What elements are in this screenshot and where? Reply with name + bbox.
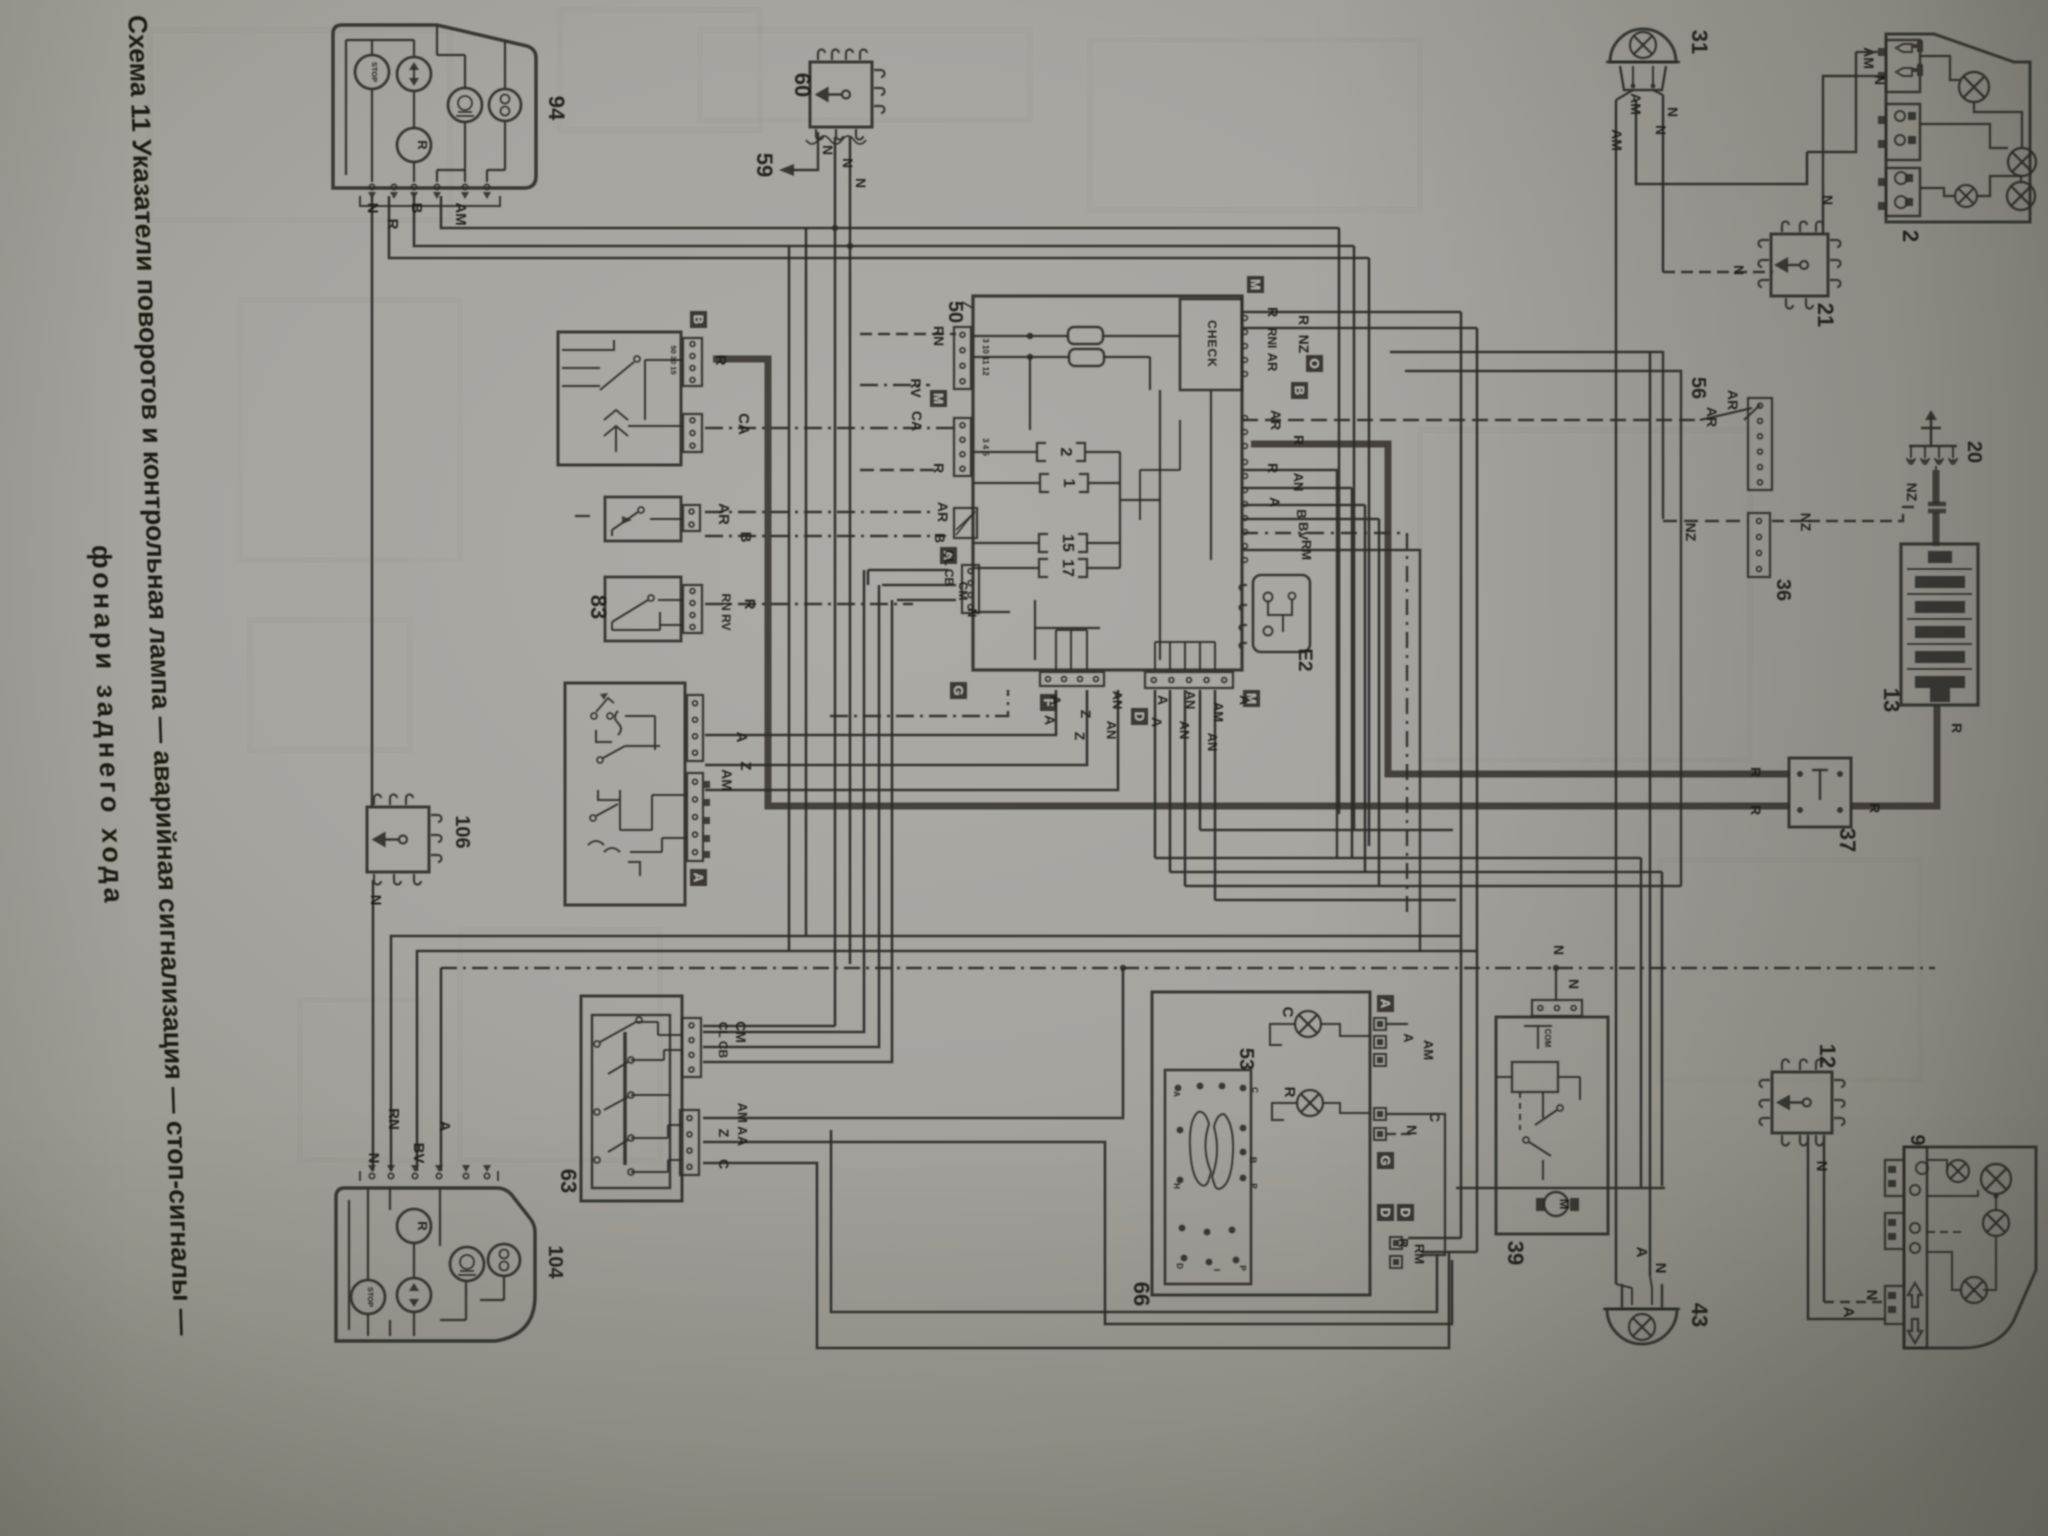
svg-text:C: C [1279, 1007, 1296, 1018]
svg-text:20: 20 [1963, 441, 1985, 463]
svg-text:15: 15 [1059, 534, 1076, 552]
svg-text:59: 59 [752, 153, 777, 177]
svg-text:AM: AM [719, 769, 735, 791]
svg-text:AN: AN [1291, 473, 1306, 492]
svg-text:N: N [840, 158, 856, 168]
svg-text:N: N [1863, 1290, 1880, 1301]
svg-text:COM: COM [1543, 1029, 1552, 1048]
svg-text:M: M [931, 393, 946, 404]
svg-text:E2: E2 [1294, 648, 1315, 671]
svg-text:P: P [1249, 1183, 1258, 1189]
svg-text:H: H [1172, 1183, 1181, 1189]
svg-text:STOP: STOP [370, 62, 379, 82]
svg-text:RNI: RNI [1265, 328, 1279, 349]
svg-text:R: R [415, 140, 430, 150]
svg-text:A: A [1149, 717, 1165, 727]
svg-text:N: N [965, 609, 979, 618]
svg-text:N: N [820, 145, 836, 155]
svg-text:RN: RN [385, 1108, 402, 1130]
svg-text:AR: AR [1704, 407, 1720, 427]
svg-text:A: A [1840, 1307, 1857, 1318]
svg-text:R: R [1296, 315, 1312, 325]
svg-text:AN: AN [1110, 691, 1125, 710]
svg-text:63: 63 [556, 1169, 581, 1193]
svg-text:AM: AM [452, 202, 469, 225]
svg-text:B: B [1248, 1157, 1258, 1164]
svg-text:R: R [1867, 803, 1883, 813]
svg-text:B: B [691, 315, 706, 324]
svg-text:2: 2 [1898, 230, 1923, 242]
svg-text:R: R [1265, 463, 1281, 473]
svg-text:A: A [733, 732, 750, 743]
svg-text:R: R [741, 599, 758, 610]
svg-text:CM: CM [733, 1021, 749, 1043]
svg-text:3 4 5: 3 4 5 [981, 438, 990, 456]
svg-text:G: G [1378, 1155, 1393, 1165]
svg-text:CL CB: CL CB [716, 1022, 730, 1059]
svg-text:I: I [1212, 1269, 1221, 1271]
svg-text:B: B [932, 533, 948, 543]
svg-text:R: R [415, 1221, 430, 1231]
svg-text:9: 9 [1906, 1134, 1928, 1145]
svg-text:36: 36 [1772, 579, 1794, 601]
svg-text:A: A [1048, 695, 1064, 705]
svg-text:106: 106 [451, 815, 473, 848]
svg-text:37: 37 [1835, 828, 1860, 852]
svg-text:83: 83 [586, 595, 611, 619]
svg-text:60: 60 [790, 73, 815, 97]
svg-text:66: 66 [1129, 1282, 1154, 1306]
svg-text:AM: AM [1861, 47, 1877, 69]
svg-text:R: R [931, 463, 947, 473]
svg-text:AN: AN [1104, 721, 1119, 740]
svg-text:17: 17 [1059, 559, 1076, 577]
svg-text:NZ: NZ [1904, 483, 1920, 502]
svg-text:AM: AM [1421, 1040, 1436, 1060]
svg-text:RM: RM [1299, 540, 1314, 560]
svg-text:R: R [1265, 307, 1281, 317]
svg-text:AN: AN [1177, 721, 1192, 740]
svg-text:AR: AR [1725, 390, 1741, 410]
svg-text:A: A [436, 1121, 453, 1132]
svg-text:AM: AM [1211, 702, 1226, 722]
svg-text:RN RV: RN RV [719, 593, 733, 630]
svg-text:B: B [1292, 386, 1307, 395]
svg-text:104: 104 [544, 1245, 566, 1279]
svg-text:AR: AR [1268, 410, 1284, 430]
svg-text:R: R [1748, 805, 1764, 815]
svg-text:R: R [1281, 1087, 1298, 1098]
svg-text:56: 56 [1687, 377, 1709, 399]
svg-text:B: B [408, 203, 425, 214]
svg-text:P: P [1238, 1265, 1247, 1271]
svg-text:A: A [1042, 715, 1058, 725]
svg-text:R: R [712, 355, 729, 366]
svg-text:BV: BV [410, 1143, 427, 1164]
svg-text:31: 31 [1687, 30, 1712, 54]
svg-text:N: N [1652, 1263, 1669, 1274]
svg-text:CHECK: CHECK [1205, 320, 1219, 368]
svg-text:50: 50 [944, 301, 966, 323]
svg-text:A: A [1155, 695, 1171, 705]
svg-text:C: C [1250, 1087, 1259, 1093]
svg-text:AM A: AM A [735, 1103, 750, 1136]
svg-text:D: D [1175, 1263, 1184, 1269]
svg-text:N: N [1731, 265, 1747, 275]
svg-text:A: A [1633, 1247, 1650, 1258]
svg-text:R: R [1748, 767, 1764, 777]
svg-text:12: 12 [1815, 1044, 1840, 1068]
svg-text:R: R [384, 219, 401, 230]
svg-text:A: A [735, 1136, 751, 1146]
svg-text:N: N [1566, 979, 1582, 989]
svg-text:Z: Z [716, 1129, 732, 1138]
svg-text:RV: RV [908, 378, 924, 398]
svg-text:AR: AR [1265, 353, 1280, 372]
svg-text:94: 94 [544, 96, 569, 121]
svg-text:N: N [1653, 125, 1669, 135]
svg-text:Z: Z [1072, 732, 1088, 741]
svg-text:1: 1 [1060, 479, 1077, 488]
svg-text:N: N [367, 895, 384, 906]
svg-text:N: N [1551, 945, 1567, 955]
svg-text:43: 43 [1687, 1303, 1712, 1327]
svg-text:39: 39 [1503, 1241, 1528, 1265]
svg-text:AR: AR [715, 503, 732, 525]
svg-text:N: N [364, 203, 381, 214]
svg-text:A: A [1267, 497, 1283, 507]
svg-text:AM: AM [1628, 93, 1644, 115]
svg-text:2: 2 [1057, 448, 1074, 457]
svg-text:NZ: NZ [1296, 335, 1312, 354]
svg-text:D: D [1378, 1208, 1393, 1217]
svg-text:NZ: NZ [1798, 513, 1814, 532]
svg-text:CL CB: CL CB [942, 550, 956, 587]
svg-text:NZ: NZ [1683, 523, 1699, 542]
svg-text:CM: CM [956, 582, 970, 601]
svg-text:A: A [691, 873, 706, 883]
svg-text:D: D [1132, 712, 1147, 721]
svg-text:C: C [716, 1159, 732, 1169]
svg-text:N: N [1820, 195, 1836, 205]
svg-text:N: N [1813, 1161, 1830, 1172]
svg-text:N: N [853, 178, 869, 188]
svg-text:N: N [365, 1153, 382, 1164]
svg-text:R: R [1949, 723, 1965, 733]
svg-text:M: M [1248, 279, 1263, 290]
svg-text:Z: Z [1078, 710, 1094, 719]
svg-text:RN: RN [931, 326, 947, 346]
svg-text:13: 13 [1879, 688, 1904, 712]
svg-text:AR: AR [935, 502, 951, 522]
svg-text:21: 21 [1813, 303, 1838, 327]
svg-text:CA: CA [735, 413, 752, 435]
svg-text:B: B [1294, 509, 1309, 518]
svg-text:D: D [1398, 1208, 1413, 1217]
svg-text:53: 53 [1235, 1048, 1257, 1070]
svg-text:B: B [737, 532, 754, 543]
svg-text:AM: AM [1609, 129, 1625, 151]
svg-text:STOP: STOP [366, 1287, 375, 1307]
svg-text:R: R [1291, 435, 1307, 445]
svg-text:G: G [951, 685, 966, 695]
svg-text:A: A [1237, 695, 1253, 705]
svg-text:CA: CA [909, 411, 925, 431]
svg-text:A: A [1401, 1033, 1416, 1043]
svg-text:A: A [1172, 1091, 1181, 1097]
svg-text:BV: BV [1296, 522, 1311, 540]
svg-text:O: O [1307, 358, 1322, 368]
svg-text:A: A [1378, 999, 1393, 1009]
svg-text:N: N [1665, 107, 1681, 117]
svg-text:AN: AN [1183, 691, 1198, 710]
svg-text:AN: AN [1205, 733, 1220, 752]
svg-text:M: M [1557, 1199, 1572, 1210]
svg-text:Z: Z [737, 761, 754, 770]
